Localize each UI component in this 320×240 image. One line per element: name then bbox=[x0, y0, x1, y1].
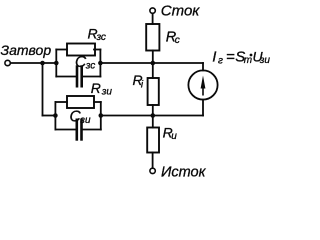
svg-text:зи: зи bbox=[259, 55, 271, 66]
svg-text:и: и bbox=[171, 131, 177, 142]
svg-text:Затвор: Затвор bbox=[1, 42, 52, 58]
svg-text:зс: зс bbox=[96, 32, 106, 43]
svg-text:m: m bbox=[244, 55, 252, 66]
svg-text:=: = bbox=[226, 49, 235, 66]
svg-text:Сток: Сток bbox=[161, 3, 201, 20]
svg-text:Исток: Исток bbox=[161, 165, 207, 181]
svg-text:R: R bbox=[91, 80, 101, 96]
svg-text:зи: зи bbox=[101, 87, 113, 98]
svg-text:г: г bbox=[218, 56, 223, 67]
svg-text:I: I bbox=[212, 49, 216, 66]
svg-text:с: с bbox=[175, 35, 180, 46]
svg-text:зс: зс bbox=[85, 60, 95, 71]
svg-text:зи: зи bbox=[79, 115, 91, 126]
